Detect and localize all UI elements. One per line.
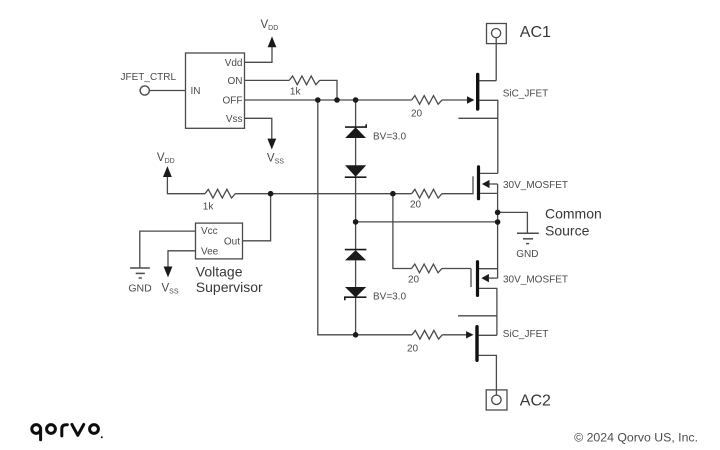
wire D4 to bottom gate line [355, 297, 357, 335]
svg-text:1k: 1k [290, 87, 302, 98]
svg-text:BV=3.0: BV=3.0 [373, 132, 407, 143]
wire to bottom JFET gate arrow [442, 334, 466, 336]
junction dot OFF-bypass [315, 97, 321, 103]
wire lower MOSFET source tap [479, 268, 498, 270]
junction dot bottom-chain [353, 332, 359, 338]
voltage supervisor U2 box [196, 223, 243, 259]
diode D1 zener triangle [345, 127, 366, 138]
wire upper MOSFET drain tap [480, 172, 498, 174]
resistor 1k (ON) [289, 76, 319, 85]
svg-text:ON: ON [228, 76, 243, 87]
power VDD arrow top [268, 36, 277, 47]
logo qorvo r [62, 425, 68, 436]
resistor 20 (upper MOSFET gate) [412, 189, 442, 198]
svg-text:20: 20 [408, 274, 420, 285]
wire top JFET drain tap [479, 80, 496, 82]
diode D3 bar [345, 249, 367, 251]
transistor top SiC JFET channel bar [476, 75, 479, 110]
wire Out pin up to mid rail [243, 194, 271, 241]
logo qorvo q bowl [32, 425, 41, 434]
wire bottom JFET drain tap to AC2 [479, 355, 497, 395]
wire diode chain top [355, 100, 357, 127]
wire bottom JFET source stub [458, 315, 497, 317]
svg-text:Vss: Vss [226, 114, 243, 125]
svg-text:VDD: VDD [157, 152, 175, 165]
ground GND left bars [130, 267, 150, 269]
logo qorvo trademark dot [101, 436, 103, 438]
svg-text:20: 20 [407, 344, 419, 355]
mosfet Q2 gate plate [472, 176, 474, 194]
svg-text:VDD: VDD [261, 19, 279, 32]
wire to top JFET gate arrow [442, 99, 467, 101]
svg-text:30V_MOSFET: 30V_MOSFET [503, 180, 568, 191]
terminal AC1 box [487, 24, 507, 44]
junction dot CS-left [495, 219, 501, 225]
wire R 1k to OFF node [320, 80, 337, 100]
wire upper MOSFET arrow to rail [490, 183, 498, 185]
diode D2 triangle [345, 165, 366, 176]
transistor top JFET gate arrow [467, 96, 474, 103]
svg-text:20: 20 [410, 199, 422, 210]
junction dot CS-GND [495, 210, 501, 216]
svg-text:Out: Out [224, 236, 240, 247]
wire AC1 drop [495, 38, 497, 81]
svg-text:AC2: AC2 [520, 393, 551, 410]
wire lower MOSFET drain tap [479, 288, 497, 335]
svg-text:© 2024 Qorvo US, Inc.: © 2024 Qorvo US, Inc. [574, 430, 698, 444]
svg-text:30V_MOSFET: 30V_MOSFET [503, 275, 568, 286]
wire Vee to VSS arrow [168, 251, 196, 268]
wire upper MOSFET source tap [480, 192, 498, 194]
power VSS arrow supervisor [164, 267, 173, 278]
junction dot mid-rail [390, 191, 396, 197]
wire between D1 and D2 [355, 138, 357, 165]
junction dot OFF-1k [334, 97, 340, 103]
resistor 1k (supervisor) [205, 189, 235, 198]
diode D3 triangle [345, 250, 366, 260]
diode D4 zener triangle [345, 287, 366, 297]
svg-text:Vdd: Vdd [225, 58, 243, 69]
wire Vss pin to VSS arrow [245, 118, 272, 139]
logo qorvo q stem [39, 430, 42, 440]
wire common source rail [497, 184, 499, 278]
mosfet Q3 body arrow [481, 274, 489, 282]
junction dot mid-out [268, 191, 274, 197]
gate driver U1 box [186, 53, 245, 128]
svg-text:1k: 1k [203, 201, 215, 212]
wire top JFET source tap [479, 100, 497, 173]
transistor bottom JFET gate arrow [466, 331, 473, 338]
wire lower MOSFET arrow to rail [489, 277, 498, 279]
svg-text:JFET_CTRL: JFET_CTRL [121, 72, 177, 83]
wire 20 to upper MOSFET gate [442, 193, 473, 195]
transistor bottom SiC JFET channel bar [475, 327, 478, 361]
logo qorvo v [72, 425, 84, 436]
wire OFF line [245, 99, 356, 101]
ground GND right bars [517, 232, 539, 234]
svg-text:Source: Source [545, 223, 590, 239]
svg-text:BV=3.0: BV=3.0 [373, 292, 407, 303]
resistor 20 (top JFET gate) [412, 96, 442, 105]
wire between D3 and D4 [355, 260, 357, 287]
power VDD arrow left [163, 166, 172, 177]
svg-text:SiC_JFET: SiC_JFET [503, 329, 549, 340]
wire common source to diode chain [356, 221, 498, 223]
svg-text:Voltage: Voltage [196, 263, 243, 279]
diode D1 zener bar [345, 124, 366, 127]
svg-text:Vee: Vee [201, 246, 219, 257]
wire bottom gate line to resistor [356, 334, 412, 336]
terminal AC2 box [486, 390, 507, 410]
wire mid rail down [393, 194, 412, 269]
svg-text:Supervisor: Supervisor [196, 279, 263, 295]
wire bypass rail left [318, 100, 356, 335]
junction dot OFF-chain [353, 97, 359, 103]
wire VDD left arrow shaft [167, 177, 205, 194]
wire Vdd pin to VDD arrow [245, 47, 273, 63]
diode D2 bar [345, 176, 367, 178]
svg-text:OFF: OFF [223, 95, 243, 106]
svg-text:20: 20 [411, 109, 423, 120]
svg-text:Common: Common [545, 206, 602, 222]
wire JFET_CTRL to IN [150, 90, 186, 92]
junction dot chain-CS [353, 219, 359, 225]
logo qorvo o1 [47, 425, 56, 434]
wire Vcc to GND [140, 231, 196, 268]
svg-text:Vcc: Vcc [201, 226, 218, 237]
svg-text:VSS: VSS [162, 283, 179, 296]
mosfet Q2 body arrow [482, 180, 490, 188]
mosfet Q3 channel bar [476, 262, 479, 296]
diode D4 zener bar [345, 297, 367, 300]
svg-text:GND: GND [128, 283, 152, 295]
mosfet Q3 gate plate [470, 269, 472, 288]
wire 20 to lower MOSFET gate [442, 268, 471, 270]
svg-text:VSS: VSS [267, 153, 284, 166]
power VSS arrow below driver [267, 139, 276, 150]
svg-text:GND: GND [516, 249, 538, 260]
terminal AC2 circle [492, 395, 501, 404]
terminal JFET_CTRL circle [140, 86, 149, 95]
wire 1k to mid rail [235, 193, 411, 195]
wire top JFET source stub [458, 117, 497, 119]
wire common source to GND [498, 212, 528, 233]
wire bottom JFET source tap [479, 334, 497, 336]
wire between D2 and CS node [355, 177, 357, 249]
svg-text:AC1: AC1 [520, 24, 551, 41]
wire OFF node to top gate resistor [356, 99, 412, 101]
svg-text:SiC_JFET: SiC_JFET [503, 89, 549, 100]
logo qorvo o2 [90, 425, 99, 434]
svg-text:IN: IN [191, 86, 201, 97]
terminal AC1 circle [492, 28, 501, 37]
resistor 20 (bottom JFET gate) [412, 330, 442, 339]
resistor 20 (lower MOSFET gate) [412, 264, 442, 273]
wire ON pin to R 1k [245, 79, 290, 81]
mosfet Q2 channel bar [477, 167, 480, 199]
